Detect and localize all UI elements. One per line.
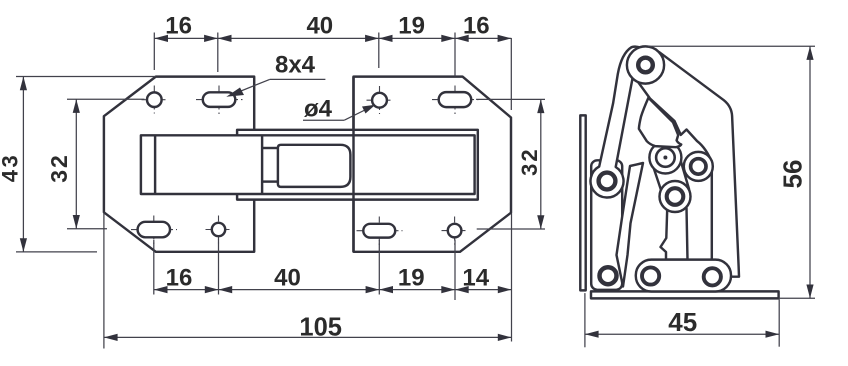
lower-right slot marks — [378, 217, 380, 246]
o4 leader — [303, 119, 344, 121]
neck top line — [262, 147, 278, 149]
tall link B — [636, 52, 740, 276]
rounded slider — [278, 145, 351, 187]
svg-text:19: 19 — [398, 265, 425, 292]
32 right extension lines — [476, 98, 545, 100]
leaf plate left — [591, 160, 622, 289]
plate holes — [138, 92, 472, 238]
apex cap — [627, 46, 664, 83]
bottom dimension line — [154, 289, 512, 291]
slot lower-right — [363, 224, 395, 238]
bottom link right rivet — [704, 268, 721, 285]
spring arm with beak — [617, 163, 644, 287]
rivets side view — [599, 58, 721, 286]
hole upper-right round (ø4) — [372, 93, 387, 108]
svg-text:45: 45 — [668, 307, 697, 337]
strap A narrow — [591, 47, 641, 198]
upper-left slot marks — [218, 86, 220, 115]
arrows top view — [20, 35, 545, 341]
bottom dim arrows — [154, 286, 168, 293]
right plate — [354, 77, 512, 252]
lower middle rivet — [667, 188, 684, 205]
slot lower-left — [138, 222, 170, 238]
8x4 leader — [270, 78, 326, 80]
56 arrows — [806, 46, 813, 60]
slot upper-right — [439, 92, 472, 107]
spring fin — [639, 98, 681, 148]
left plate — [104, 77, 254, 252]
lower-left circle marks — [218, 216, 220, 244]
43 extension lines — [16, 76, 156, 78]
lower lobe link — [660, 181, 691, 212]
vertical link — [661, 200, 688, 260]
middle ring rivet — [691, 159, 706, 174]
105 arrows — [104, 334, 118, 341]
105 dimension line — [104, 336, 512, 338]
32 left dimension line — [75, 99, 77, 229]
45 extension lines — [584, 293, 586, 347]
base plate — [591, 291, 779, 298]
right plate left edge over band — [352, 77, 354, 252]
svg-text:56: 56 — [778, 160, 808, 189]
32 right dimension line — [540, 99, 542, 229]
svg-text:16: 16 — [463, 12, 490, 39]
lower-left slot marks — [153, 216, 155, 245]
svg-text:16: 16 — [165, 12, 192, 39]
bottom link — [636, 260, 731, 292]
bottom extension lines — [153, 240, 155, 295]
top dim arrows — [154, 35, 168, 42]
wall plate — [580, 115, 585, 290]
svg-text:32: 32 — [517, 147, 542, 175]
hole lower-right round — [448, 224, 462, 238]
32 right arrows — [537, 99, 544, 113]
dot pivot lobe — [649, 142, 681, 174]
leaf top rivet — [599, 173, 616, 190]
lower-right circle marks — [454, 217, 456, 245]
center marks of plate holes — [131, 86, 479, 246]
slot 8x4 upper-left — [203, 92, 236, 107]
svg-text:43: 43 — [0, 153, 22, 182]
top extension lines — [153, 33, 155, 71]
svg-text:8x4: 8x4 — [275, 51, 316, 78]
45 arrows — [585, 331, 599, 338]
8x4 leader arrow — [226, 88, 244, 97]
apex rivet — [638, 58, 653, 73]
left arm hem line — [154, 135, 156, 194]
svg-text:ø4: ø4 — [304, 96, 333, 123]
o4 leader arrow — [362, 105, 375, 114]
texts top view — [0, 12, 542, 341]
left arm end line — [261, 135, 263, 194]
small rivet link lobe — [684, 152, 713, 181]
peanut waist — [652, 160, 689, 190]
upper-right slot marks — [454, 86, 456, 115]
45 dimension line — [585, 333, 779, 335]
hole lower-left round — [212, 223, 225, 236]
svg-text:40: 40 — [306, 12, 333, 39]
svg-text:40: 40 — [274, 265, 301, 292]
outer housing band — [237, 130, 478, 200]
upper-left circle marks — [153, 86, 155, 114]
bottom link left rivet — [642, 267, 659, 284]
dot pivot ring — [656, 148, 675, 167]
32 left extension lines — [67, 98, 145, 100]
neck bottom line — [262, 180, 278, 182]
32 left arrows — [73, 99, 80, 113]
svg-text:32: 32 — [46, 153, 72, 183]
central hinge arm assembly — [141, 77, 478, 252]
upper-right circle marks — [379, 86, 381, 114]
inner arm band — [141, 135, 475, 194]
leaf bottom rivet — [600, 267, 617, 284]
svg-text:19: 19 — [398, 12, 425, 39]
svg-text:14: 14 — [462, 265, 489, 292]
43 dimension line — [22, 77, 24, 252]
43 arrows — [20, 77, 27, 91]
svg-text:105: 105 — [299, 314, 342, 342]
svg-text:16: 16 — [166, 265, 193, 292]
top dimension line — [154, 37, 511, 39]
56 dimension line — [809, 46, 811, 298]
56 extension lines — [648, 45, 815, 47]
hole upper-left round — [147, 92, 162, 107]
